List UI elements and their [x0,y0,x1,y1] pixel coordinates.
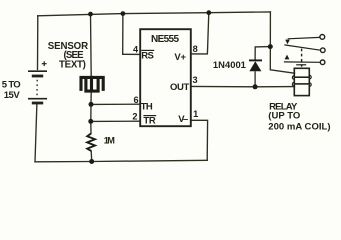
svg-text:4: 4 [133,45,139,55]
svg-text:1M: 1M [104,136,116,146]
node top rail / sensor [88,12,93,17]
svg-text:NE555: NE555 [151,34,179,45]
relay contact terminal circles [320,35,325,65]
relay mechanical linkage (dashed) [301,49,303,68]
wire bottom rail [35,160,207,162]
wire pin6 TH [91,103,140,105]
node TR junction [88,119,93,124]
wire pin2 TR [91,120,140,122]
node bottom rail / resistor [89,159,94,164]
wire top supply rail [38,12,271,16]
svg-text:TEXT): TEXT) [59,59,86,70]
wire pin8 V+ [191,13,209,54]
sensor electrodes (interdigitated) [81,77,103,91]
wire battery bottom lead [35,104,37,162]
relay coil [294,68,309,95]
relay contact top fixed line with down arrow [285,37,320,44]
svg-text:V–: V– [178,114,188,125]
svg-text:8: 8 [193,44,198,54]
svg-text:1N4001: 1N4001 [213,59,246,70]
wire pin3 OUT to coil [191,85,295,87]
svg-text:2: 2 [132,112,137,122]
svg-text:200 mA COIL): 200 mA COIL) [268,121,330,132]
svg-text:5 TO: 5 TO [2,79,21,90]
node TH junction [89,102,94,107]
wire resistor bottom lead [90,151,93,162]
relay moving blade [284,45,320,50]
battery plus sign [42,61,47,66]
resistor R1 1M [87,134,95,151]
wire left rail (battery top lead) [37,16,39,70]
battery B1 [28,71,47,103]
wire sensor bottom lead to resistor [90,92,92,133]
svg-text:TH: TH [141,101,153,112]
node top rail / pin4 riser [121,11,126,16]
wire sensor top lead [90,14,93,76]
svg-text:6: 6 [134,95,139,105]
diode D1 1N4001 [249,60,262,86]
svg-text:3: 3 [193,75,198,85]
svg-text:1: 1 [193,109,198,119]
wire diode cathode branch [255,47,270,61]
relay bottom fixed line with up arrow [284,55,320,63]
svg-text:OUT: OUT [170,82,189,93]
node V+ / diode cathode [268,44,273,49]
node OUT / diode anode [253,84,258,89]
svg-text:V+: V+ [174,52,186,63]
svg-text:TR: TR [143,115,156,126]
node top rail / pin8 riser [206,10,211,15]
svg-text:15V: 15V [4,90,21,101]
wire V+ drop to relay coil [270,12,294,73]
wire pin1 V- riser [191,120,208,160]
svg-text:RS: RS [141,51,154,62]
wire pin4 RS riser [123,14,141,55]
svg-text:(UP TO: (UP TO [268,110,300,121]
timer U1 NE555 box [140,29,191,126]
relay armature tick above coil [296,64,306,66]
